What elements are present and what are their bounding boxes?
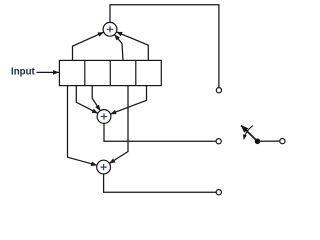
adder U2 bbox=[97, 110, 111, 124]
terminal 4 bbox=[280, 139, 285, 144]
switch arm bbox=[241, 126, 257, 142]
wire tap A (stage 1 bottom to U3) bbox=[68, 86, 97, 166]
terminal 2 bbox=[216, 139, 221, 144]
shift register bbox=[59, 60, 161, 85]
wire tap T3 (stage 4 top to U1) bbox=[116, 32, 148, 60]
terminal 1 bbox=[216, 88, 221, 93]
svg-text:Input: Input bbox=[11, 66, 35, 77]
wire U1 output to terminal 1 bbox=[110, 5, 219, 88]
terminal 3 bbox=[216, 190, 221, 195]
adder U1 bbox=[103, 22, 117, 36]
wire U3 output to terminal 3 bbox=[104, 174, 217, 192]
wire tap B (stage 1 bottom to U2) bbox=[76, 86, 98, 114]
input arrow bbox=[37, 71, 59, 73]
wire U2 output to terminal 2 bbox=[104, 123, 216, 141]
wire tap D (stage 3 bottom to U3) bbox=[109, 86, 128, 164]
adder U3 bbox=[97, 160, 111, 174]
wire tap C (stage 2 bottom to U2) bbox=[92, 86, 100, 111]
switch pivot bbox=[255, 139, 261, 145]
wire switch to terminal 4 bbox=[258, 140, 280, 142]
wire tap E (stage 4 bottom to U2) bbox=[110, 86, 146, 114]
wire tap T2 (stage 3 top to U1) bbox=[115, 35, 124, 61]
switch rotation arc bbox=[244, 126, 253, 140]
wire tap T1 (stage 1 top to U1) bbox=[73, 32, 104, 60]
